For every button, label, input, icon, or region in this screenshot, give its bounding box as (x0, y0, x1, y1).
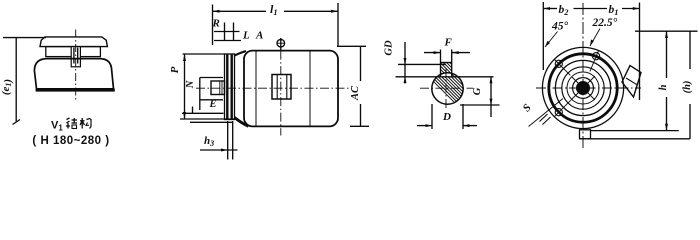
F dimension line (424, 52, 441, 54)
caption (H180~280) (32, 135, 109, 147)
terminal box outer (272, 75, 291, 100)
terminal box inner lines (276, 75, 278, 100)
E extension stub (192, 107, 194, 114)
bell wedge bottom (235, 118, 249, 127)
D extension lines (431, 104, 433, 129)
bottom tangent line A (591, 130, 679, 132)
vertical centerline of cross-section (280, 51, 282, 136)
bolt hole 22.5 UR (593, 53, 600, 60)
e1 extension line top (3, 37, 46, 39)
b dimension line (543, 8, 557, 10)
leader 22.5 (590, 29, 600, 47)
svg-text:GD: GD (384, 40, 395, 56)
circle r21 (562, 67, 604, 109)
e1 bottom arrow tick (13, 120, 21, 125)
R extension lines (224, 23, 226, 41)
keyseat flat line (GD bottom / G top) (396, 76, 494, 78)
e1 dimension line (15, 38, 17, 122)
circle r27.5 (555, 60, 610, 115)
l1 dimension line (213, 10, 267, 12)
S tick 2 (543, 117, 551, 125)
svg-text:P: P (169, 66, 181, 73)
b1 extension right (639, 3, 641, 101)
P dimension line (184, 54, 186, 119)
svg-text:45°: 45° (551, 21, 569, 33)
svg-text:D: D (442, 111, 451, 123)
h dimension line (666, 31, 668, 78)
label h rotated (658, 84, 669, 90)
crosshair vertical (582, 3, 584, 148)
flange plate (225, 54, 235, 120)
h3 extension lines (227, 121, 229, 160)
N bottom tick (200, 99, 223, 101)
label GD rotated (384, 40, 395, 56)
circle r16 (567, 72, 599, 104)
leader 45 (545, 32, 558, 48)
svg-text:N: N (185, 80, 196, 89)
motor body (244, 51, 338, 127)
D dimension line (417, 125, 432, 127)
svg-text:R: R (212, 18, 220, 30)
horizontal centerline view2 (196, 87, 352, 89)
svg-text:(h): (h) (682, 81, 693, 94)
terminal box right (622, 66, 641, 98)
centerline horizontal view3 (420, 87, 473, 89)
shaft circle (432, 73, 463, 104)
N top tick (200, 77, 223, 79)
svg-text:( H 180~280 ): ( H 180~280 ) (32, 135, 109, 147)
l1 extension line left (212, 5, 214, 46)
G dimension line (490, 77, 492, 117)
center block with inner lines (71, 47, 80, 67)
center shaft filled (576, 81, 590, 95)
svg-text:AC: AC (350, 85, 361, 101)
key sides (440, 50, 442, 77)
second plate (46, 47, 101, 57)
eyebolt (277, 38, 286, 51)
AC bottom tick (350, 125, 369, 127)
P top extension (183, 53, 226, 55)
R dimension line (214, 31, 240, 33)
glyph 构 (80, 118, 91, 129)
seam line left (255, 52, 257, 126)
glyph 结 (66, 118, 77, 129)
G bottom tick (460, 104, 500, 106)
AC dimension line (360, 46, 362, 81)
label AC rotated (350, 85, 361, 101)
GD dimension line (404, 42, 406, 84)
key top edge (441, 62, 452, 64)
svg-text:L: L (242, 30, 250, 42)
label (e1) rotated (0, 79, 14, 95)
flange bottom extension line (190, 121, 233, 123)
thick bottom bar (36, 89, 115, 92)
svg-text:22.5°: 22.5° (592, 17, 618, 29)
(h) dimension line (689, 31, 691, 69)
AC top tick (337, 45, 366, 47)
GD top tick (398, 63, 446, 65)
centerline vertical view3 (445, 68, 447, 109)
thick spigot circle (549, 54, 617, 122)
S tick 1 (540, 114, 548, 122)
short spoke UL (572, 77, 578, 83)
outer flange circle (542, 47, 623, 128)
radial 45 up-left (554, 59, 570, 75)
shaft hatch lines (219, 81, 221, 95)
crosshair horizontal (536, 87, 641, 89)
svg-text:G: G (472, 87, 483, 95)
svg-text:F: F (444, 37, 453, 49)
shaft (211, 81, 225, 95)
main body dome (34, 59, 113, 89)
svg-text:E: E (209, 99, 217, 110)
label N rotated (185, 80, 196, 89)
bottom foot box (580, 130, 591, 139)
svg-text:h: h (658, 84, 669, 90)
P bottom extension (180, 118, 238, 120)
svg-text:A: A (255, 30, 263, 42)
vertical centerline view1 (75, 30, 77, 100)
E dimension line (182, 112, 224, 114)
hatching (420, 1, 500, 148)
label S rotated (521, 102, 534, 114)
radial 22.5 up-right (590, 50, 599, 71)
h3 dimension line (200, 149, 238, 151)
flange plate (top) (40, 37, 107, 47)
circle r10.5 (573, 78, 594, 99)
bell wedge top (235, 51, 247, 56)
radial down-left (555, 100, 571, 116)
baseline B (580, 138, 691, 140)
label (h) rotated (682, 81, 693, 94)
label G rotated (472, 87, 483, 95)
l1 extension line right (337, 3, 339, 47)
S leader line (529, 99, 564, 127)
bolt hole 45 UL (555, 60, 562, 67)
terminal box inner line (626, 78, 638, 85)
seam line right (309, 51, 311, 127)
short diag spokes near center (588, 76, 595, 83)
b2 extension left (542, 2, 544, 70)
caption V1 jiegou (51, 120, 63, 133)
top line C (635, 30, 698, 32)
bolt hole DL (S) (555, 109, 562, 116)
label P rotated (169, 66, 181, 73)
svg-text:(e1): (e1) (0, 79, 14, 95)
L A dimension line (214, 40, 241, 42)
N dimension line (199, 78, 201, 111)
